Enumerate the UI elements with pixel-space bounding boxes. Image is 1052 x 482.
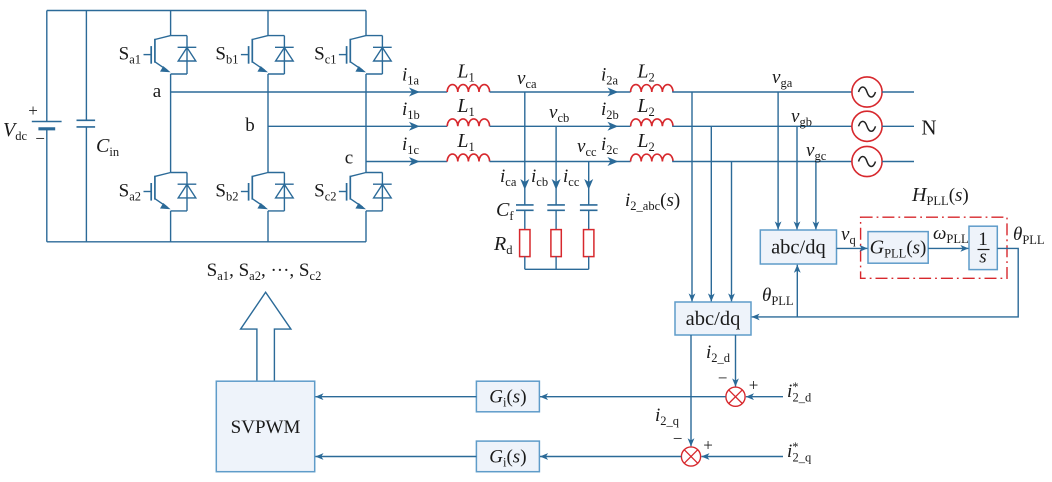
- svg-text:i*2_q: i*2_q: [787, 440, 812, 465]
- svg-text:−: −: [718, 369, 728, 388]
- svg-text:vga: vga: [772, 67, 793, 90]
- svg-text:θPLL: θPLL: [1013, 224, 1045, 247]
- svg-text:L2: L2: [636, 130, 654, 154]
- svg-text:s: s: [979, 247, 986, 268]
- svg-text:L1: L1: [456, 130, 474, 154]
- svg-text:i*2_d: i*2_d: [787, 380, 812, 405]
- svg-text:Sc2: Sc2: [314, 181, 336, 204]
- svg-text:Sa2: Sa2: [119, 181, 141, 204]
- svg-text:abc/dq: abc/dq: [771, 237, 826, 259]
- svg-text:i2_q: i2_q: [655, 405, 680, 428]
- svg-text:θPLL: θPLL: [762, 285, 794, 308]
- svg-text:i2_d: i2_d: [706, 342, 731, 365]
- svg-text:Sb2: Sb2: [215, 181, 238, 204]
- svg-text:Sc1: Sc1: [314, 44, 336, 67]
- svg-text:L2: L2: [636, 95, 654, 119]
- svg-text:i1c: i1c: [402, 134, 420, 157]
- svg-text:Gi(s): Gi(s): [489, 387, 526, 410]
- svg-text:N: N: [921, 116, 936, 140]
- svg-text:Gi(s): Gi(s): [489, 446, 526, 469]
- svg-text:i2a: i2a: [601, 65, 619, 88]
- svg-text:ωPLL: ωPLL: [933, 223, 969, 246]
- svg-text:abc/dq: abc/dq: [686, 308, 741, 330]
- svg-text:−: −: [673, 429, 683, 448]
- svg-text:Cin: Cin: [96, 135, 120, 159]
- svg-text:L1: L1: [456, 95, 474, 119]
- svg-text:icc: icc: [563, 166, 580, 189]
- svg-text:vgc: vgc: [806, 140, 827, 163]
- svg-text:L1: L1: [456, 61, 474, 85]
- svg-text:i1b: i1b: [402, 99, 420, 122]
- svg-text:i2_abc(s): i2_abc(s): [625, 190, 680, 213]
- svg-text:vq: vq: [841, 224, 856, 247]
- svg-text:SVPWM: SVPWM: [231, 417, 301, 438]
- svg-text:Rd: Rd: [493, 233, 513, 257]
- svg-text:i2b: i2b: [601, 99, 619, 122]
- svg-text:c: c: [345, 148, 353, 169]
- svg-text:vcb: vcb: [549, 102, 569, 125]
- svg-text:Vdc: Vdc: [3, 119, 27, 143]
- svg-text:+: +: [28, 101, 38, 120]
- svg-text:ica: ica: [500, 166, 517, 189]
- svg-text:b: b: [245, 115, 255, 136]
- svg-text:Sb1: Sb1: [215, 44, 238, 67]
- svg-text:icb: icb: [531, 166, 548, 189]
- svg-text:−: −: [35, 129, 45, 148]
- svg-text:HPLL(s): HPLL(s): [911, 184, 969, 208]
- svg-text:+: +: [749, 376, 759, 395]
- svg-text:i1a: i1a: [402, 65, 420, 88]
- svg-text:vgb: vgb: [791, 106, 812, 129]
- svg-text:Sa1: Sa1: [119, 44, 141, 67]
- svg-text:+: +: [703, 436, 713, 455]
- svg-text:vcc: vcc: [577, 136, 597, 159]
- svg-text:Cf: Cf: [496, 199, 514, 223]
- svg-text:L2: L2: [636, 61, 654, 85]
- svg-text:i2c: i2c: [601, 134, 619, 157]
- svg-text:vca: vca: [517, 68, 537, 91]
- svg-text:Sa1, Sa2, ···, Sc2: Sa1, Sa2, ···, Sc2: [207, 260, 322, 283]
- svg-text:a: a: [153, 81, 162, 102]
